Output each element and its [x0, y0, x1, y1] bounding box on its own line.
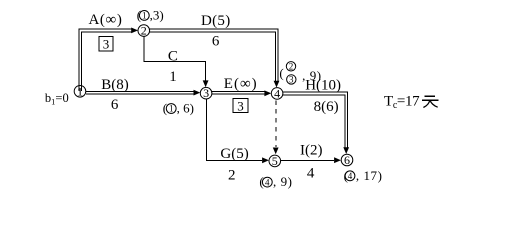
wire: activity G single line (node 3 down then right to node 5): [206, 99, 262, 160]
svg-text:1: 1: [169, 104, 174, 114]
svg-text:4: 4: [307, 165, 315, 181]
svg-text:1: 1: [77, 84, 83, 98]
arrowhead of C into node 3: [203, 80, 209, 87]
svg-text:H(10): H(10): [305, 77, 341, 93]
svg-text:2: 2: [228, 168, 236, 184]
svg-text:4: 4: [348, 171, 353, 181]
svg-text:4: 4: [274, 86, 280, 100]
svg-text:2: 2: [141, 24, 147, 38]
svg-text:2: 2: [289, 61, 294, 71]
wire: activity D double line (node 2 right then down to node 4): [150, 29, 278, 81]
wire: activity C single line (node 2 down, right, down to node 3): [144, 36, 206, 80]
svg-text:, 9): , 9): [273, 174, 293, 189]
svg-text:6: 6: [111, 97, 119, 113]
svg-text:,3): ,3): [150, 7, 164, 22]
svg-text:8(6): 8(6): [314, 99, 339, 115]
label: annotation (1,3) above node 2: [137, 7, 164, 22]
arrowhead of D into node 4: [274, 81, 280, 88]
svg-text:, 17): , 17): [356, 168, 383, 183]
svg-text:G(5): G(5): [220, 146, 248, 162]
arrowhead of E into node 4: [264, 90, 271, 96]
wire: activity B double line (node 1 to node 3): [86, 91, 194, 94]
arrowhead of I into node 6: [334, 157, 341, 163]
svg-text:6: 6: [212, 34, 220, 50]
wire: activity E double line (node 3 to node 4): [212, 91, 264, 94]
node 3: [200, 86, 212, 100]
svg-text:(: (: [279, 65, 283, 80]
wire: activity A double line (from node 1 up and right to node 2): [79, 29, 132, 91]
node 5: [269, 154, 281, 168]
label: boxed free float 3 under A: [99, 37, 113, 52]
label: annotation (2/3, 9) above node 4: [279, 61, 321, 84]
node 4: [271, 86, 283, 100]
glyph: Chinese character tian (day) drawn as strokes: [422, 96, 438, 107]
svg-text:B(8): B(8): [101, 77, 129, 93]
label: boxed free float 3 under E: [233, 98, 248, 113]
arrowhead of A into node 2: [131, 28, 138, 34]
svg-text:(: (: [259, 174, 263, 189]
svg-text:, 6): , 6): [177, 101, 194, 116]
label: annotation (1, 6) under B near node 3: [163, 101, 194, 116]
node 2: [138, 24, 150, 38]
svg-text:1: 1: [169, 69, 177, 85]
svg-text:1: 1: [142, 11, 147, 21]
wire: activity H double line (node 4 right then down to node 6): [283, 92, 347, 148]
svg-text:I(2): I(2): [300, 143, 323, 159]
svg-text:6: 6: [344, 153, 350, 167]
arrowhead of H into node 6: [343, 147, 349, 154]
label: annotation (4, 9) under node 5: [259, 174, 292, 189]
svg-text:D(5): D(5): [201, 13, 231, 29]
svg-text:3: 3: [103, 37, 110, 52]
node 6: [341, 153, 353, 167]
svg-text:b1=0: b1=0: [45, 91, 69, 106]
svg-text:C: C: [168, 48, 178, 64]
svg-text:Tc=17: Tc=17: [384, 94, 420, 111]
wire: activity I single line (node 5 to node 6): [281, 159, 334, 161]
svg-text:3: 3: [203, 86, 209, 100]
node 1: [74, 84, 86, 98]
label: annotation (4, 17) under node 6: [344, 168, 383, 183]
arrowhead of G into node 5: [262, 157, 269, 163]
arrowhead of dummy into node 5: [273, 148, 279, 155]
svg-text:E(∞): E(∞): [224, 76, 258, 92]
svg-text:5: 5: [272, 154, 278, 168]
svg-text:3: 3: [289, 75, 294, 85]
svg-text:3: 3: [237, 98, 244, 113]
wire: dummy activity dashed line (node 4 down to node 5): [275, 100, 277, 147]
svg-text:A(∞): A(∞): [89, 12, 123, 28]
svg-text:4: 4: [265, 177, 270, 187]
arrowhead of B into node 3: [194, 90, 201, 96]
